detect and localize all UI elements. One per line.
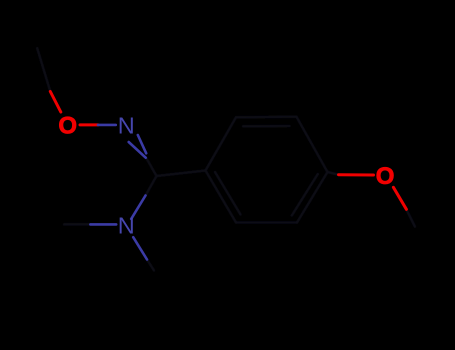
bond ring-O2 dark half xyxy=(328,172,339,175)
ring edge BL-L xyxy=(206,171,237,223)
svg-text:N: N xyxy=(118,113,135,139)
svg-text:O: O xyxy=(376,163,395,190)
aromatic inner line lower-right xyxy=(292,174,318,216)
aromatic inner line lower-left xyxy=(215,172,241,215)
ring edge R-BR xyxy=(297,172,328,223)
bond N1=C blue line 1 xyxy=(129,142,146,158)
bond ring-O2 red half xyxy=(339,173,374,176)
bond N2-CH3c blue half xyxy=(133,237,147,259)
bond O1-N1 red half xyxy=(80,123,98,126)
bond N2-CH3b dark half xyxy=(64,223,90,226)
bond N1=C dark tip xyxy=(146,158,157,177)
ring edge TL-TR xyxy=(236,116,297,119)
bond N2-CH3c dark half xyxy=(147,260,154,271)
bond C-N2 dark half xyxy=(146,176,157,196)
bond O2-CH3d red half xyxy=(393,187,406,209)
aromatic inner line top xyxy=(243,125,290,128)
heteroatom-coloured bond halves xyxy=(50,92,406,260)
bond CH2-O1 red xyxy=(50,92,61,113)
bond N1=C blue line 2 xyxy=(138,135,146,153)
carbon skeleton (near-black) xyxy=(37,48,415,270)
ring edge L-TL xyxy=(206,117,237,170)
bond O1-N1 blue half xyxy=(98,124,116,127)
svg-text:O: O xyxy=(58,113,77,140)
svg-text:N: N xyxy=(118,213,135,239)
ring edge BR-BL xyxy=(236,221,297,224)
bond N2-CH3b blue half xyxy=(90,223,116,226)
bond C-ring xyxy=(157,171,206,177)
bond CH3a-CH2 (ethyl) xyxy=(37,48,50,91)
ring edge TR-R xyxy=(297,117,328,172)
bond O2-CH3d dark half xyxy=(406,209,415,226)
bond C-N2 blue half xyxy=(131,196,145,219)
